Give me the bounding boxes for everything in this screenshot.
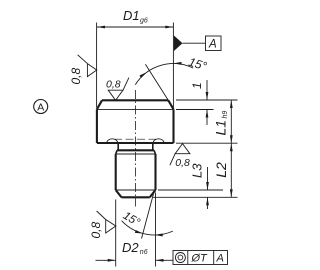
svg-text:0,8: 0,8 <box>89 221 103 238</box>
groove bottom line <box>114 138 157 140</box>
D2 ext line right <box>155 193 157 267</box>
D2 dim line right part <box>156 259 174 261</box>
roughness symbol bottom-left (tip right on D2 ext) <box>97 211 116 233</box>
angle 15 bottom arrow on slant leg <box>135 230 143 234</box>
D1 extension line right <box>172 23 174 109</box>
angle 15 top arrow on vertical leg <box>174 62 182 65</box>
svg-text:1: 1 <box>190 82 204 89</box>
datum box <box>206 36 222 51</box>
svg-text:0,8: 0,8 <box>175 157 190 169</box>
svg-text:L2: L2 <box>213 162 229 178</box>
shank bottom edge <box>122 196 150 198</box>
D1 arrow right <box>165 26 173 29</box>
ext line head bottom right <box>176 142 238 144</box>
angle 15 top leg <box>145 64 173 108</box>
shank top edge <box>117 149 154 151</box>
head chamfer edge line <box>97 108 174 110</box>
svg-text:15°: 15° <box>187 55 209 74</box>
svg-text:A: A <box>208 39 217 51</box>
roughness symbol top-center (tip down on top face) <box>108 78 129 101</box>
neck <box>118 143 153 150</box>
part body outline head <box>97 100 174 143</box>
svg-text:n6: n6 <box>140 249 148 256</box>
ext line shank bottom right <box>153 196 238 198</box>
relief groove arc right <box>153 139 164 143</box>
datum triangle A <box>174 36 183 52</box>
centerline <box>134 90 136 207</box>
dim L1 line <box>230 100 232 143</box>
dim L3 lower line <box>207 197 209 209</box>
angle 15 top arrow on slant leg <box>140 72 148 78</box>
roughness symbol top-left (tip right on D1 ext) <box>78 55 97 77</box>
D2 dim line left part <box>96 259 116 261</box>
svg-text:A: A <box>37 102 44 114</box>
ext line chamfer bottom right <box>176 109 214 111</box>
svg-text:g6: g6 <box>140 18 148 25</box>
shank top chamfers <box>116 150 117 154</box>
dim 1 lower line <box>206 110 208 125</box>
angle 15 bottom arrow on vertical ext <box>155 234 163 237</box>
angle 15 top arc <box>135 64 193 85</box>
ext line shank chamfer right <box>158 189 223 191</box>
svg-text:h9: h9 <box>222 111 229 119</box>
shank bottom chamfer start line <box>116 189 156 191</box>
svg-text:D2: D2 <box>122 240 139 255</box>
svg-text:0,8: 0,8 <box>69 67 83 84</box>
dim 1 upper line <box>206 80 208 100</box>
position marker circle A <box>34 100 48 114</box>
roughness symbol mid-right (tip up under head-bottom ext) <box>170 144 190 166</box>
svg-text:L3: L3 <box>190 163 205 178</box>
shank sides <box>116 154 156 190</box>
svg-text:0,8: 0,8 <box>106 79 121 91</box>
svg-text:15°: 15° <box>121 210 142 229</box>
shank bottom chamfer silhouettes <box>116 190 156 197</box>
svg-text:ØT: ØT <box>191 253 209 265</box>
dim L3 upper line <box>207 167 209 190</box>
D2 ext line left <box>115 200 117 267</box>
relief groove arc left <box>107 139 118 143</box>
svg-text:L1: L1 <box>213 120 229 136</box>
D1 dimension line <box>97 26 173 28</box>
D1 extension line left <box>96 23 98 108</box>
ext line top face right <box>176 99 238 101</box>
dim L2 line <box>230 143 232 197</box>
angle 15 bottom arc <box>122 221 173 235</box>
svg-text:D1: D1 <box>123 8 140 23</box>
angle 15 bottom leg <box>142 190 155 239</box>
D1 arrow left <box>97 26 105 29</box>
datum leader <box>183 42 206 44</box>
concentricity symbol <box>175 253 185 263</box>
FCF box <box>173 251 228 265</box>
svg-text:A: A <box>216 253 224 265</box>
